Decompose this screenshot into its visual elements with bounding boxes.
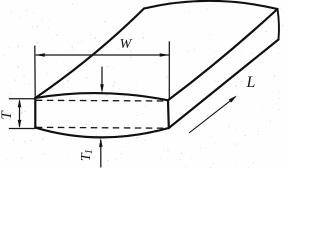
svg-text:W: W	[120, 37, 133, 52]
svg-text:T: T	[0, 110, 15, 120]
svg-text:L: L	[246, 74, 256, 91]
svg-text:T1: T1	[79, 149, 95, 161]
